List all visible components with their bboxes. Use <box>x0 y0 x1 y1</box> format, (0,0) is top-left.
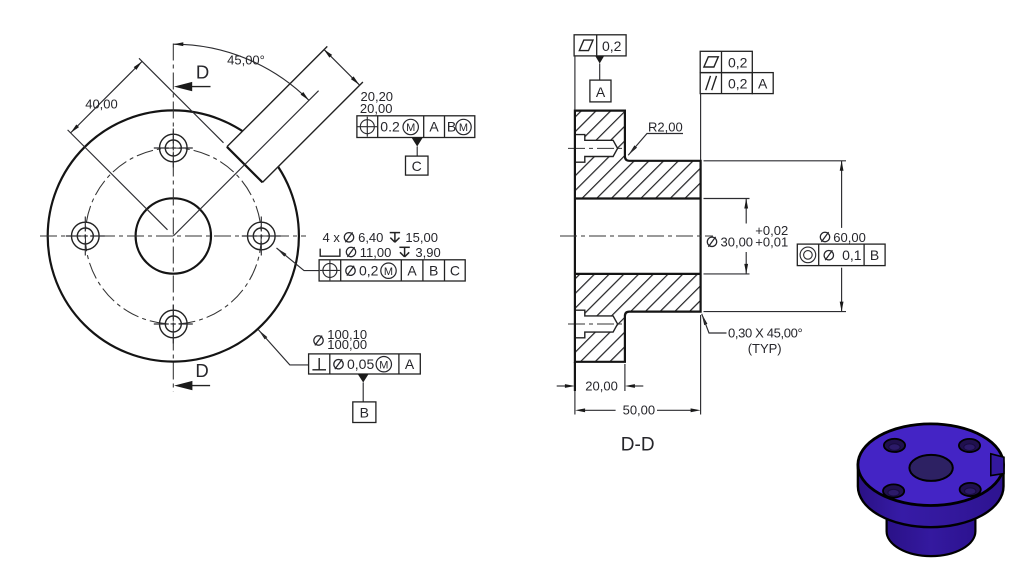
main axis centerline <box>560 235 713 237</box>
bore wall bottom <box>575 273 701 275</box>
hub cylinder <box>887 478 976 556</box>
section arrow D bottom <box>174 360 210 390</box>
svg-text:R2,00: R2,00 <box>648 120 683 135</box>
leader R2,00 fillet <box>627 120 683 157</box>
FCF position holes: Ø 0,2 M | A | B | C <box>319 260 465 281</box>
slot cut whiteout <box>227 119 290 182</box>
FCF flatness left: 0,2 <box>574 35 626 56</box>
notch 3d <box>991 454 1004 476</box>
dimension 40,00 <box>68 58 224 230</box>
svg-text:0,30 X 45,00°: 0,30 X 45,00° <box>728 326 803 341</box>
FCF flatness right: 0,2 <box>700 51 752 72</box>
bolt circle Ø70 <box>85 148 261 324</box>
svg-text:0,2: 0,2 <box>359 263 379 279</box>
svg-text:0.2: 0.2 <box>380 119 400 135</box>
bolt hole W <box>66 217 105 256</box>
svg-text:6,40: 6,40 <box>358 230 383 245</box>
svg-text:20,00: 20,00 <box>585 379 618 394</box>
bore circle Ø30 <box>136 198 211 273</box>
svg-text:D-D: D-D <box>621 434 655 455</box>
datum A flag <box>590 56 611 102</box>
section arrow D top <box>174 62 211 92</box>
hatch bottom region <box>575 274 701 362</box>
vertical centerline / section line D-D <box>172 44 174 392</box>
slot edge lower <box>263 82 363 182</box>
cbore hole 3d LR <box>960 483 981 496</box>
leader chamfer note <box>700 313 802 356</box>
disc side <box>858 465 1004 528</box>
svg-text:0,1: 0,1 <box>842 247 862 263</box>
svg-text:A: A <box>407 263 417 279</box>
svg-text:4 x: 4 x <box>323 230 341 245</box>
leader 4x holes callout <box>275 247 319 271</box>
slot closed end <box>227 147 263 183</box>
datum C flag <box>406 138 429 176</box>
hole axis bottom <box>568 323 623 325</box>
svg-text:C: C <box>450 263 460 279</box>
svg-text:B: B <box>870 247 879 263</box>
horizontal centerline <box>40 235 306 237</box>
datum B flag <box>353 374 376 423</box>
svg-text:C: C <box>412 158 422 174</box>
bolt hole E <box>242 217 281 256</box>
disc top face <box>858 424 1004 506</box>
svg-text:100,00: 100,00 <box>327 337 367 352</box>
cbore hole bottom whiteout <box>575 310 618 338</box>
svg-text:50,00: 50,00 <box>623 403 656 418</box>
svg-text:0,2: 0,2 <box>728 54 748 70</box>
dimension Ø30,00 <box>704 199 789 274</box>
FCF parallelism right: 0,2 | A <box>700 73 773 94</box>
bolt hole N <box>154 129 193 168</box>
svg-text:0,2: 0,2 <box>728 76 748 92</box>
FCF perpendicularity: Ø 0,05 M | A <box>309 354 421 374</box>
slot edge upper <box>227 46 327 146</box>
svg-text:B: B <box>429 263 438 279</box>
hatch top region <box>575 111 701 199</box>
callout text cbore Ø11,00 depth 3,90 <box>320 245 441 260</box>
svg-text:(TYP): (TYP) <box>748 341 782 356</box>
section outer profile <box>575 111 701 362</box>
dimension Ø60,00 <box>704 161 866 312</box>
hole axis top <box>568 147 623 149</box>
cbore hole 3d LL <box>883 484 904 497</box>
svg-text:+0,01: +0,01 <box>755 235 788 250</box>
callout text 4 x Ø6,40 depth 15,00 <box>323 230 438 245</box>
slot radial centerline 45deg <box>173 91 318 236</box>
extension right face up <box>700 94 702 160</box>
svg-text:B: B <box>447 119 456 135</box>
text Ø100,10/100,00 <box>314 327 367 352</box>
svg-text:20,00: 20,00 <box>360 101 393 116</box>
svg-text:A: A <box>405 356 415 372</box>
svg-text:A: A <box>758 76 768 92</box>
outer circle Ø100 <box>48 110 299 361</box>
cbore hole 3d UL <box>884 439 905 452</box>
dimension slot 20,20/20,00 <box>322 48 393 116</box>
cbore hole top whiteout <box>575 135 618 163</box>
svg-text:45,00°: 45,00° <box>227 52 265 67</box>
cbore hole bottom outline <box>575 310 618 338</box>
center hole <box>909 455 952 481</box>
dimension 20,00 <box>557 362 644 394</box>
svg-text:0,2: 0,2 <box>602 38 622 54</box>
svg-text:0,05: 0,05 <box>347 356 374 372</box>
svg-text:3,90: 3,90 <box>415 245 440 260</box>
cbore hole top outline <box>575 135 618 163</box>
FCF concentricity: Ø 0,1 | B <box>797 244 885 266</box>
dimension 50,00 <box>575 315 701 418</box>
svg-text:A: A <box>429 119 439 135</box>
svg-text:15,00: 15,00 <box>405 230 438 245</box>
bolt hole S <box>154 305 193 344</box>
extension left face up <box>574 56 576 110</box>
svg-text:30,00: 30,00 <box>721 235 754 250</box>
svg-text:D: D <box>195 360 208 381</box>
svg-text:D: D <box>196 62 209 83</box>
svg-text:60,00: 60,00 <box>833 230 866 245</box>
angular dimension 45,00deg <box>173 42 310 101</box>
bore wall top <box>575 197 701 199</box>
cbore hole 3d UR <box>959 439 980 452</box>
svg-text:40,00: 40,00 <box>85 97 118 112</box>
FCF position slot: 0.2 M | A | B M <box>357 116 475 138</box>
svg-text:A: A <box>596 84 606 100</box>
svg-text:B: B <box>360 404 369 420</box>
svg-text:11,00: 11,00 <box>360 245 392 260</box>
leader Ø100 callout <box>257 329 308 365</box>
